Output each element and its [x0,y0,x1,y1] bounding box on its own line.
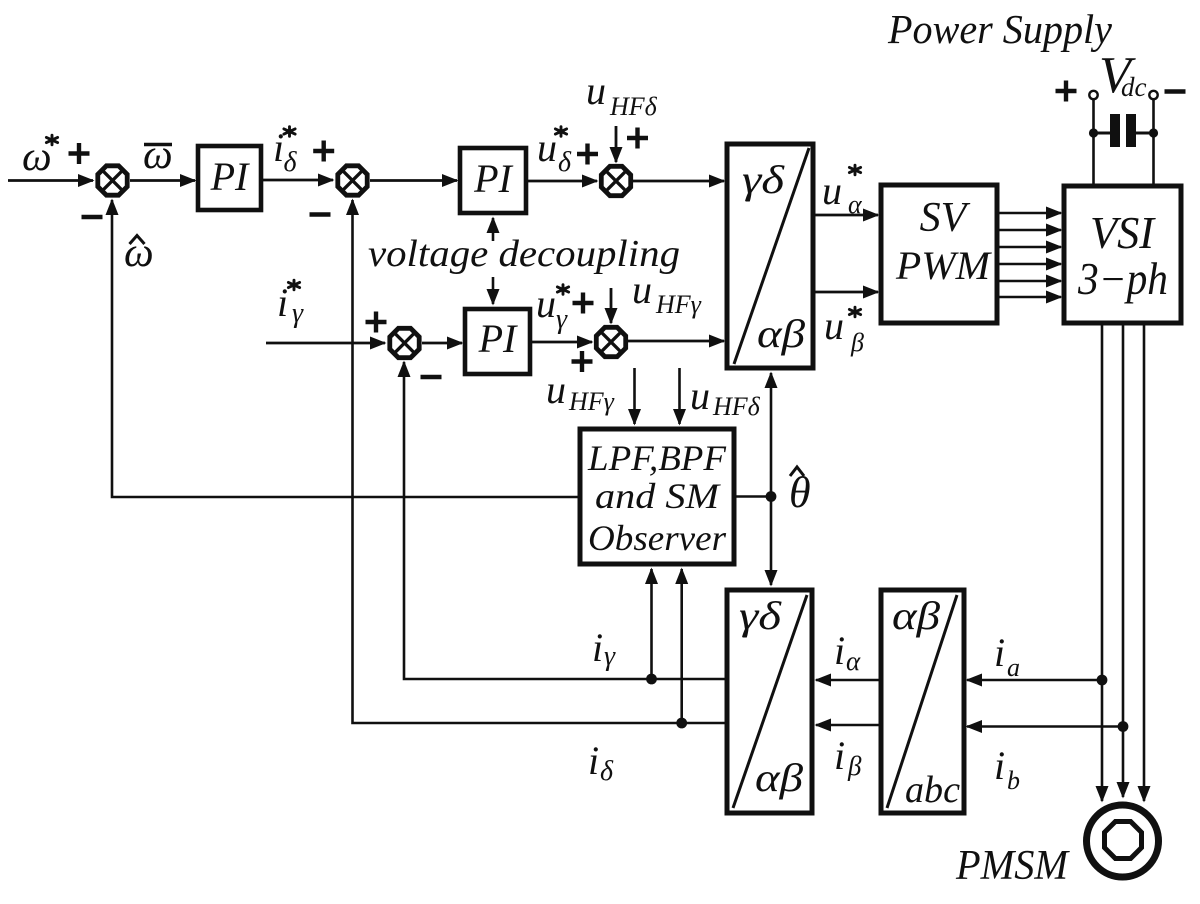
block PI1 speed controller [198,146,261,210]
summing junction J4 gamma voltage sum [596,327,625,356]
wire J3 to voltage transform block [633,180,724,183]
svg-text:PMSM: PMSM [955,843,1070,889]
block LPF BPF and SM observer [580,429,734,564]
block VSI 3-phase inverter [1064,186,1181,323]
svg-text:i: i [592,625,603,670]
svg-text:u: u [690,373,710,418]
summing junction J1 speed error [98,166,127,195]
minus sign at J5 [421,375,442,379]
svg-text:γδ: γδ [739,593,783,638]
block PI3 gamma current controller [465,309,530,374]
svg-text:SV: SV [920,195,971,241]
svg-text:u: u [822,168,842,213]
svg-text:HFγ: HFγ [655,290,702,319]
svg-text:i: i [994,743,1005,788]
svg-text:γ: γ [604,641,616,672]
svg-text:αβ: αβ [755,755,803,800]
svg-text:HFγ: HFγ [568,387,615,416]
svg-text:HFδ: HFδ [712,392,761,421]
wire PI1 to J2 [261,179,333,182]
svg-text:i: i [834,733,845,778]
svg-text:δ: δ [600,756,614,787]
svg-text:δ: δ [558,147,572,178]
summing junction J3 delta voltage sum [601,166,630,195]
wire i-delta feedback [353,200,728,723]
svg-text:β: β [847,751,862,781]
svg-text:dc: dc [1121,72,1147,102]
svg-text:abc: abc [905,769,960,811]
wire VSI phase a [1101,323,1104,801]
svg-text:β: β [850,328,864,357]
minus sign at J1 [82,215,103,219]
terminal circle Vdc plus [1089,91,1097,99]
wire i-gamma into observer [650,569,653,679]
block SV PWM modulator [881,185,997,323]
svg-text:γ: γ [556,304,568,335]
minus sign at J2 [310,212,331,216]
plus sign of Vdc [1056,81,1077,102]
plus sign at J3 horizontal input [577,144,598,165]
svg-text:LPF,BPF: LPF,BPF [587,438,727,478]
plus sign at J2 [313,141,334,162]
svg-text:Observer: Observer [588,518,727,558]
plus sign at J5 [366,312,387,333]
wire ia to abc transform [967,679,1102,682]
wire omega* input [8,179,93,182]
svg-text:γ: γ [292,298,304,329]
junction dot theta-hat [766,491,777,502]
wire voltage decoupling to PI2 [492,218,495,241]
wire i-alpha [816,679,881,682]
svg-text:δ: δ [284,147,298,178]
block PI2 delta current controller [460,148,526,213]
summing junction J5 gamma current error [390,328,419,357]
svg-text:3−ph: 3−ph [1077,254,1168,304]
plus sign at speed summing junction [69,143,90,164]
wire theta-hat up to voltage transform [770,373,773,497]
wire i-delta into observer [680,569,683,723]
wire u-alpha* to SVPWM [813,214,878,217]
svg-text:γδ: γδ [742,157,786,202]
svg-text:b: b [1007,766,1020,795]
wire J1 to PI1 [130,179,195,182]
wire theta-hat down to current transform [770,497,773,586]
svg-text:PI: PI [478,316,518,361]
svg-text:α: α [846,646,861,676]
motor PMSM symbol [1087,805,1159,877]
svg-text:u: u [586,68,606,113]
capacitor C1 dc-link [1089,114,1158,147]
junction dot ia tap [1097,675,1108,686]
summing junction J2 delta current error [338,166,367,195]
block alpha-beta to abc current transform [881,590,964,813]
svg-text:HFδ: HFδ [609,92,658,121]
svg-text:u: u [632,267,652,312]
svg-text:αβ: αβ [892,593,940,638]
plus sign at J4 horizontal input [573,293,594,314]
wire PI2 to J3 [526,180,597,183]
plus sign at J3 vertical input [627,128,648,149]
svg-text:Power Supply: Power Supply [887,6,1113,52]
svg-text:u: u [536,281,556,326]
minus sign of Vdc [1165,89,1186,93]
junction dot i-gamma to observer [646,674,657,685]
wire i-gamma feedback [404,362,727,679]
svg-text:u: u [824,303,844,348]
block gamma-delta to alpha-beta voltage transform [727,144,813,368]
wire J4 to voltage transform block [628,340,725,343]
wire VSI phase b [1122,323,1125,797]
svg-text:and SM: and SM [595,476,721,516]
junction dot i-delta to observer [676,718,687,729]
wire ib to abc transform [967,725,1123,728]
svg-text:a: a [1007,653,1020,682]
svg-text:ω: ω [143,132,173,178]
wire omega-hat feedback [112,200,580,497]
wire u-HF-gamma into J4 [610,288,613,323]
svg-text:VSI: VSI [1090,207,1157,258]
wire i-gamma* input [266,342,385,345]
svg-text:αβ: αβ [757,311,805,356]
wire u-beta* to SVPWM [813,291,878,294]
wire u-HF-delta into J3 [615,126,618,162]
wire u-HF-delta into observer [678,368,681,424]
wire J2 to PI2 [370,179,457,182]
wire J5 to PI3 [422,342,462,345]
wire i-beta [816,724,881,727]
svg-text:u: u [546,367,566,412]
wire Vdc plus rail to VSI [1092,100,1095,189]
terminal circle Vdc minus [1149,91,1157,99]
wire PI3 to J4 [530,341,592,344]
wire u-HF-gamma into observer [633,368,636,424]
svg-text:i: i [273,125,284,170]
wire theta-hat output [734,495,771,498]
svg-text:i: i [994,630,1005,675]
wire Vdc minus rail to VSI [1152,100,1155,189]
svg-text:PI: PI [210,154,250,199]
svg-text:i: i [277,280,288,325]
wire VSI phase c [1143,323,1146,801]
block gamma-delta to alpha-beta current transform [727,590,812,813]
svg-text:i: i [588,738,599,783]
wire PWM gate signals x6 [997,213,1061,297]
plus sign at J4 vertical input [572,351,593,372]
svg-text:PI: PI [473,156,513,201]
svg-text:i: i [834,628,845,673]
wire voltage decoupling to PI3 [492,277,495,304]
junction dot ib tap [1118,721,1129,732]
svg-text:PWM: PWM [895,243,993,288]
svg-text:u: u [537,125,557,170]
